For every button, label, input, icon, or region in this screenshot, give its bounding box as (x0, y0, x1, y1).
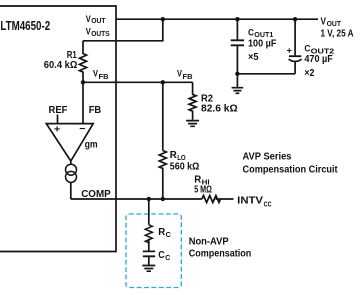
wire VOUT rail (116, 18, 318, 20)
node VFB-RLO (161, 80, 165, 84)
node VFB (81, 80, 85, 84)
op-amp U1 gm (46, 124, 93, 161)
svg-text:Compensation Circuit: Compensation Circuit (243, 165, 339, 176)
svg-text:INTV: INTV (237, 195, 263, 206)
ground CC (142, 256, 155, 271)
node COMP-RLO (161, 197, 165, 201)
svg-text:100 µF: 100 µF (248, 38, 276, 49)
box non-AVP dashed (126, 214, 181, 288)
wire RLO branch (162, 82, 164, 199)
wire REF stub (57, 115, 59, 124)
svg-text:gm: gm (85, 139, 98, 151)
resistor RLO (159, 151, 166, 169)
svg-text:470 µF: 470 µF (304, 54, 332, 65)
svg-text:OUT: OUT (91, 18, 106, 25)
svg-text:FB: FB (99, 74, 109, 81)
wire caps bottom (237, 73, 295, 75)
svg-text:FB: FB (183, 74, 193, 81)
svg-text:AVP Series: AVP Series (243, 151, 292, 162)
node COUT1 top (235, 17, 239, 21)
resistor RC (145, 225, 152, 243)
svg-text:C: C (158, 250, 165, 261)
ground R2 (186, 121, 199, 127)
wire COMP horizontal (71, 198, 202, 200)
resistor R2 (189, 82, 196, 120)
svg-text:−: − (79, 123, 85, 135)
svg-text:82.6 kΩ: 82.6 kΩ (201, 104, 238, 115)
svg-text:FB: FB (89, 105, 102, 116)
wire to INTVCC (216, 198, 234, 200)
svg-text:Non-AVP: Non-AVP (189, 237, 229, 248)
svg-text:OUT: OUT (327, 21, 342, 28)
svg-text:C: C (166, 232, 171, 239)
svg-text:×5: ×5 (248, 52, 259, 63)
node COUT2 top (293, 17, 297, 21)
node COUT1 bottom (235, 72, 239, 76)
node COMP-RC (147, 197, 151, 201)
svg-text:1 V, 25 A: 1 V, 25 A (321, 28, 354, 39)
wire FB input (82, 82, 84, 123)
svg-text:OUTS: OUTS (91, 31, 110, 38)
svg-text:5 MΩ: 5 MΩ (194, 185, 212, 196)
svg-text:LTM4650-2: LTM4650-2 (0, 18, 50, 33)
IC block LTM4650-2 (0, 6, 116, 252)
svg-text:COMP: COMP (81, 189, 111, 200)
wire op-amp output to COMP (70, 161, 72, 199)
svg-text:60.4 kΩ: 60.4 kΩ (44, 60, 78, 71)
svg-text:CC: CC (264, 202, 272, 209)
capacitor COUT1 (236, 19, 238, 74)
wire VFB horizontal (83, 81, 193, 83)
svg-text:+: + (54, 123, 60, 135)
current source I1 (66, 164, 77, 175)
resistor R1 (80, 41, 87, 83)
svg-text:C: C (165, 255, 170, 262)
capacitor CC (143, 251, 155, 256)
svg-text:C: C (248, 28, 254, 39)
node VOUT/VOUTS junction (161, 17, 165, 21)
svg-text:REF: REF (49, 105, 68, 116)
svg-text:Compensation: Compensation (189, 248, 252, 259)
resistor RHI (202, 196, 221, 203)
wire RC branch (148, 199, 150, 251)
svg-text:+: + (287, 46, 292, 56)
capacitor COUT2 (294, 19, 296, 74)
ground COUT1 (232, 74, 244, 94)
svg-text:560 kΩ: 560 kΩ (170, 162, 200, 173)
wire VOUTS to VOUT riser (83, 19, 163, 41)
svg-text:×2: ×2 (304, 68, 314, 79)
svg-text:V: V (321, 16, 327, 28)
